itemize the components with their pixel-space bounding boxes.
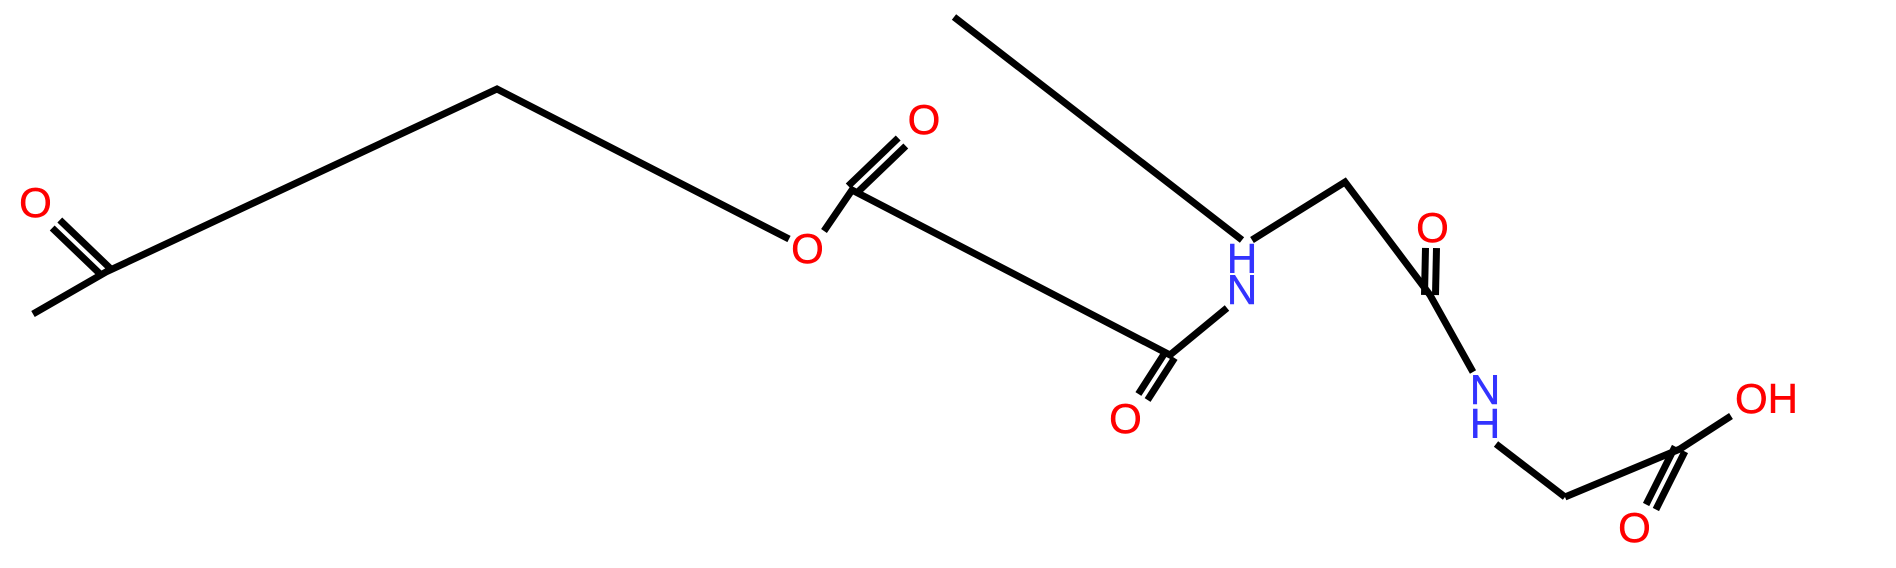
- double bond Cam2=O5 (amide carbonyl): [1436, 248, 1437, 295]
- chain: methyl - C2 - apex A1 - down to ester O3: [33, 89, 789, 314]
- double bond Cam1=O4 (amide carbonyl): [1138, 352, 1165, 394]
- svg-text:N: N: [1227, 266, 1257, 313]
- svg-text:OH: OH: [1735, 375, 1798, 422]
- svg-text:O: O: [19, 179, 52, 226]
- double bond C1=O2 (ester carbonyl): [856, 146, 906, 194]
- svg-text:O: O: [908, 96, 941, 143]
- chain: CH2 - carboxyl C - to OH: [1565, 416, 1731, 497]
- double bond Ccoo=O6 (carboxyl): [1646, 447, 1675, 505]
- long chain bond V1 down to N1 label top: [954, 17, 1242, 240]
- chain: O3 - ester C1 - long run - amide C - to N1: [824, 190, 1227, 355]
- svg-text:O: O: [1416, 204, 1449, 251]
- svg-text:O: O: [1618, 504, 1651, 551]
- bond N2 to CH2: [1496, 444, 1565, 497]
- svg-text:H: H: [1470, 400, 1500, 447]
- chain: N1 - CH2 apex - Cam2 - to N2: [1252, 182, 1473, 372]
- svg-text:O: O: [1109, 395, 1142, 442]
- svg-text:O: O: [791, 225, 824, 272]
- double bond C2=O1 (ketone): [52, 228, 102, 276]
